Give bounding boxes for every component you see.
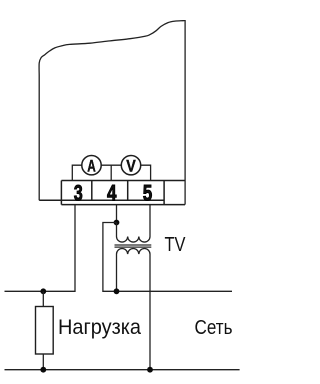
svg-text:V: V bbox=[126, 156, 136, 175]
wire: terminal 3 down to load bus bbox=[5, 205, 76, 292]
voltmeter V circle bbox=[121, 156, 140, 175]
meter bracket wire (terminal 3 to A to V to terminal 5) bbox=[72, 165, 150, 180]
node: load bottom junction bbox=[40, 367, 46, 373]
resistor (load) bbox=[36, 307, 54, 355]
node: load top junction bbox=[40, 288, 46, 294]
meter body outline (torn-top device) bbox=[39, 21, 185, 205]
transformer TV core bbox=[115, 245, 152, 247]
svg-text:Сеть: Сеть bbox=[195, 317, 233, 339]
node: secondary to mains top bus bbox=[114, 288, 120, 294]
node: junction at terminal 4 / transformer primary bbox=[114, 220, 120, 226]
ammeter A circle bbox=[82, 156, 101, 175]
node: transformer lead to bottom bus bbox=[147, 367, 153, 373]
transformer TV primary winding (top) bbox=[116, 205, 150, 242]
wire: junction left and down to mains top bus bbox=[103, 223, 232, 292]
wire: load top lead bbox=[42, 291, 44, 306]
svg-text:TV: TV bbox=[165, 234, 187, 256]
terminal strip outline bbox=[39, 181, 185, 205]
svg-text:A: A bbox=[87, 156, 96, 175]
svg-text:4: 4 bbox=[107, 180, 117, 205]
wire: load bottom lead bbox=[42, 354, 44, 370]
mains bottom bus wire bbox=[5, 369, 240, 371]
svg-text:5: 5 bbox=[143, 180, 153, 205]
transformer TV secondary winding (bottom) bbox=[116, 249, 150, 370]
wire: terminal 4 down to junction bbox=[116, 205, 118, 223]
svg-text:3: 3 bbox=[74, 180, 83, 205]
svg-text:Нагрузка: Нагрузка bbox=[58, 316, 141, 339]
